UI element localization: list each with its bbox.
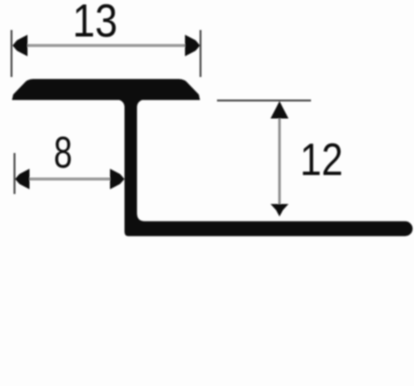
svg-text:12: 12 <box>300 134 343 185</box>
arrowhead 13 left <box>13 35 28 56</box>
arrowhead 12 up <box>271 101 289 119</box>
arrowhead 8 left <box>15 169 30 189</box>
stem-to-flange fillet left <box>118 100 125 108</box>
profile stem and bottom bar <box>125 97 413 236</box>
dimension line 12 (vertical) <box>278 116 281 205</box>
dimension line 13 <box>26 44 187 47</box>
extension line of 12 (horizontal) <box>217 100 311 102</box>
profile top flange <box>12 79 200 100</box>
dimension line 8 <box>28 178 112 181</box>
extension line left of 13 <box>11 30 13 77</box>
arrowhead 8 right <box>110 169 125 189</box>
svg-text:13: 13 <box>73 0 118 47</box>
arrowhead 13 right <box>185 35 200 56</box>
arrowhead 12 down <box>271 204 289 217</box>
svg-text:8: 8 <box>54 128 73 177</box>
extension line of 8 <box>14 153 16 194</box>
extension line right of 13 <box>200 30 202 77</box>
stem-to-flange fillet right <box>137 100 144 108</box>
